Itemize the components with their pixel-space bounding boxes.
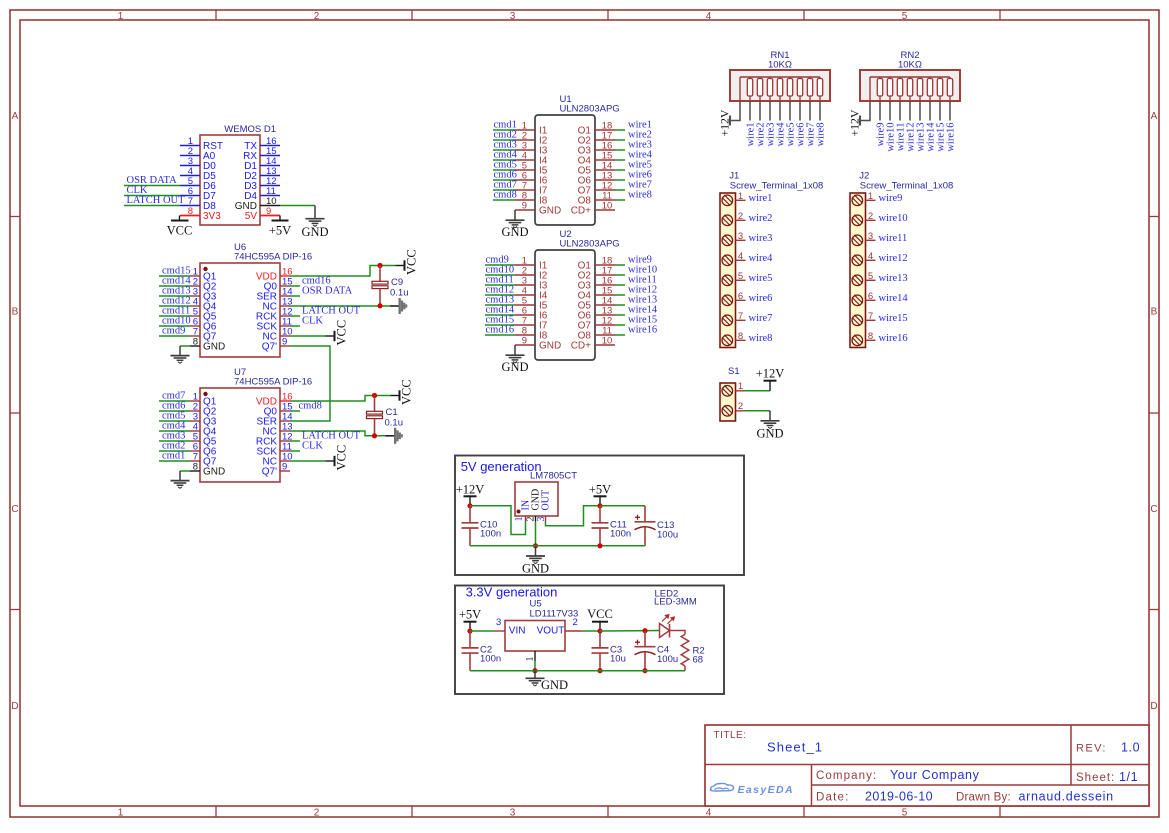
wire U7 GND pin8 to ground [180,470,190,472]
U1 pin 16 O3 [595,149,615,151]
wire U5 GND to rail [534,661,536,671]
module U WEMOS D1 body [200,135,260,225]
svg-text:5: 5 [902,11,908,22]
svg-text:GND: GND [501,225,528,239]
svg-text:VCC: VCC [335,320,349,346]
wire net wire7 stub at U1 pin 12 [615,189,625,191]
power flag VCC right of C9 [396,265,405,267]
svg-text:6: 6 [738,291,743,302]
svg-text:VIN: VIN [509,626,526,637]
svg-text:2: 2 [314,808,320,819]
wire net cmd14 to U2 pin 6 [485,314,515,316]
pin 8 3V3 [180,215,200,217]
RN1 resistor element 8 [819,77,821,79]
J2 screw 4 [852,255,863,266]
svg-text:74HC595A DIP-16: 74HC595A DIP-16 [234,252,312,263]
J1 pin 2 [736,219,746,221]
U2 pin 17 O2 [595,274,615,276]
svg-text:10: 10 [602,201,613,212]
svg-text:GND: GND [522,562,549,576]
J1 pin 5 [736,279,746,281]
RN1 pin 6 leg [789,101,791,121]
U7 pin 2 Q2 [190,410,200,412]
IC U6 74HC595A DIP-16 body [200,263,280,357]
svg-text:B: B [1151,307,1158,318]
RN2 common bus [870,76,950,78]
J1 screw 5 [722,275,733,286]
title block dividers [705,764,1149,766]
junction C4 bottom [642,668,647,673]
U7 pin 6 Q6 [190,450,200,452]
wire U6 GND pin8 to ground [180,345,190,347]
svg-text:wire8: wire8 [816,123,827,147]
J2 pin 3 [866,239,876,241]
wire net cmd11 to U2 pin 3 [485,284,515,286]
U1 pin 17 O2 [595,139,615,141]
J1 pin 3 [736,239,746,241]
J1 pin 1 [736,199,746,201]
svg-text:wire8: wire8 [749,333,773,344]
capacitor C1 0.1u [374,396,376,412]
U6 pin 6 Q6 [190,325,200,327]
wire net cmd3 to U7 pin 5 [159,440,190,442]
svg-text:9: 9 [522,336,527,347]
power flag +5V under WEMOS [272,220,289,222]
svg-text:VCC: VCC [405,249,419,275]
svg-text:Company:: Company: [816,770,877,782]
svg-text:1.0: 1.0 [1121,741,1140,755]
wire net cmd1 to U7 pin 7 [159,460,190,462]
ground symbol under WEMOS [314,206,316,219]
ground symbol under U2 [514,345,516,355]
U5 pin 3 [494,630,506,632]
resistor R2 68 zigzag [681,634,689,666]
wire net cmd1 to U1 pin 1 [493,129,515,131]
RN2 pin 2 leg [879,101,881,121]
svg-text:0.1u: 0.1u [390,288,409,299]
annotation box 5V generation [455,456,744,576]
wire net wire16 stub at U2 pin 11 [615,334,625,336]
RN1 resistor element 1 [749,77,751,79]
RN1 pin 8 leg [809,101,811,121]
S1 pin 1 [736,390,745,392]
svg-text:10u: 10u [610,653,626,664]
pin 2 A0 [180,155,200,157]
svg-text:wire16: wire16 [946,123,957,152]
svg-text:2: 2 [525,517,536,522]
svg-text:WEMOS D1: WEMOS D1 [224,124,276,135]
svg-text:4: 4 [868,251,873,262]
RN2 pin 9 leg [949,101,951,121]
U2 pin 13 O6 [595,314,615,316]
ground symbol in 3.3V box [534,671,536,679]
svg-text:wire16: wire16 [628,325,657,336]
wire U7 pin15 Q0 stub [290,410,300,412]
junction +5V / C2 [467,628,472,633]
svg-text:+5V: +5V [589,482,611,496]
U1 pin 13 O6 [595,179,615,181]
J2 screw 5 [852,275,863,286]
RN2 resistor element 3 [899,77,901,79]
pin 12 D3 [260,185,280,187]
RN1 common bus [740,76,820,78]
svg-text:8: 8 [193,462,198,473]
wire U6 pin11 SCK stub [290,325,300,327]
svg-text:10KΩ: 10KΩ [898,60,922,71]
RN1 resistor element 5 [789,77,791,79]
RN2 resistor element 1 [879,77,881,79]
svg-text:CD+: CD+ [571,341,591,352]
svg-text:VCC: VCC [335,445,349,471]
RN1 pin 1 common leg [730,101,740,121]
U6 pin 15 Q0 [280,285,290,287]
U7 pin 3 Q3 [190,420,200,422]
svg-text:C1: C1 [386,407,398,418]
wire net cmd2 to U1 pin 2 [493,139,515,141]
wire net cmd5 to U7 pin 3 [159,420,190,422]
power flag VCC at U7 pin10 [326,460,335,462]
capacitor C13 100u polarized [644,506,646,522]
svg-text:9: 9 [282,337,287,348]
regulator U LM7805CT body [515,482,558,516]
svg-text:TITLE:: TITLE: [714,730,747,741]
frame row letters [11,111,1157,712]
wire net wire5 stub at U1 pin 14 [615,169,625,171]
screw terminal J2 body [850,193,866,348]
RN2 resistor element 6 [929,77,931,79]
J1 screw 6 [722,295,733,306]
J1 screw 7 [722,315,733,326]
pin 5 D6 [180,185,200,187]
svg-text:3: 3 [496,617,501,628]
junction U5 GND rail [532,668,537,673]
U7 pin 14 SER [280,420,290,422]
svg-text:cmd16: cmd16 [486,325,515,336]
svg-text:C: C [1150,504,1157,515]
svg-text:1: 1 [738,191,743,202]
wire net cmd15 to U6 pin 1 [159,275,190,277]
svg-text:LM7805CT: LM7805CT [530,471,577,482]
svg-text:Your Company: Your Company [890,768,980,782]
U7 pin 7 Q7 [190,460,200,462]
S1 screw 2 [722,406,733,417]
svg-text:+12V: +12V [456,482,485,496]
U6 pin 12 RCK [280,315,290,317]
capacitor C4 100u polarized [644,631,646,647]
J2 pin 1 [866,199,876,201]
junction VCC / C3 [597,628,602,633]
svg-text:VCC: VCC [587,607,613,621]
LM7805 pin 3 OUT stub [545,516,547,522]
RN1 resistor element 2 [759,77,761,79]
wire net cmd2 to U7 pin 6 [159,450,190,452]
U2 pin 8 I8 [515,334,535,336]
LM7805 pin 1 stub [525,516,527,522]
svg-text:2019-06-10: 2019-06-10 [865,790,933,804]
svg-text:2: 2 [738,401,743,412]
U1 pin 12 O7 [595,189,615,191]
svg-text:5: 5 [738,271,743,282]
svg-text:C9: C9 [391,277,403,288]
wire net wire6 stub at U1 pin 13 [615,179,625,181]
svg-text:wire15: wire15 [879,313,908,324]
svg-text:wire7: wire7 [749,313,773,324]
U6 pin 2 Q2 [190,285,200,287]
svg-text:GND: GND [541,678,568,692]
svg-text:A: A [1151,111,1158,122]
svg-text:wire9: wire9 [879,193,903,204]
S1 screw 1 [722,386,733,397]
RN1 pin 2 leg [749,101,751,121]
U7 pin1 marker dot [203,392,207,396]
power flag +12V at RN2 [859,116,861,126]
LED2 light arrows [662,615,674,624]
ground symbol at U6 pin8 [179,346,181,356]
svg-text:wire5: wire5 [749,273,773,284]
svg-text:+12V: +12V [756,367,785,381]
pin 7 D8 [180,205,200,207]
wire net cmd5 to U1 pin 5 [493,169,515,171]
svg-text:GND: GND [501,360,528,374]
svg-text:Screw_Terminal_1x08: Screw_Terminal_1x08 [730,181,823,192]
U1 pin 11 O8 [595,199,615,201]
svg-text:Drawn By:: Drawn By: [956,792,1011,804]
U6 pin 10 NC [280,335,290,337]
RN2 resistor element 7 [939,77,941,79]
svg-text:3: 3 [868,231,873,242]
svg-text:wire10: wire10 [879,213,908,224]
svg-text:4: 4 [738,251,743,262]
U6 pin 11 SCK [280,325,290,327]
RN1 pin 5 leg [779,101,781,121]
svg-text:3V3: 3V3 [203,211,221,222]
pin 3 D0 [180,165,200,167]
J2 screw 8 [852,335,863,346]
svg-text:1: 1 [514,517,525,522]
wire LED2 cathode to R2 [670,631,686,635]
svg-text:CD+: CD+ [571,206,591,217]
svg-text:wire8: wire8 [628,190,652,201]
svg-text:GND: GND [756,426,783,440]
capacitor C10 100n [469,506,471,523]
capacitor C11 100n [599,506,601,523]
svg-text:wire4: wire4 [749,253,774,264]
J2 screw 6 [852,295,863,306]
RN1 pin 9 leg [819,101,821,121]
wire net wire15 stub at U2 pin 12 [615,324,625,326]
U2 pin 7 I7 [515,324,535,326]
RN1 resistor element 4 [779,77,781,79]
svg-text:100u: 100u [657,654,678,665]
junction C11 bottom [597,543,602,548]
U7 pin 15 Q0 [280,410,290,412]
junction U7 VDD / C1 [372,393,377,398]
svg-text:VCC: VCC [167,224,193,238]
power flag +12V at S1 [769,381,771,391]
svg-text:4: 4 [706,11,712,22]
wire net wire4 stub at U1 pin 15 [615,159,625,161]
svg-text:8: 8 [868,331,873,342]
ground symbol under U1 [514,210,516,220]
svg-text:1: 1 [118,11,124,22]
U1 pin 5 I5 [515,169,535,171]
ground symbol at U7 pin8 [179,471,181,481]
J2 screw 2 [852,215,863,226]
svg-text:8: 8 [193,337,198,348]
RN2 pin 3 leg [889,101,891,121]
wire net cmd14 to U6 pin 2 [159,285,190,287]
wire U6 Q7 pin9 to U7 SER pin14 [290,346,330,421]
RN2 pin 6 leg [919,101,921,121]
screw terminal J1 body [720,193,736,348]
EasyEDA logo [711,783,734,791]
wire U6 pin13 to ground rail [290,305,390,307]
U6 pin 16 VDD [280,275,290,277]
wire U5 VOUT to VCC [582,630,601,632]
J1 pin 4 [736,259,746,261]
RN2 resistor element 4 [909,77,911,79]
svg-text:wire3: wire3 [749,233,773,244]
U1 pin 10 CD+ [595,209,615,211]
svg-text:B: B [12,307,19,318]
J2 screw 3 [852,235,863,246]
J2 pin 7 [866,319,876,321]
wire net cmd6 to U7 pin 2 [159,410,190,412]
pin 6 D7 [180,195,200,197]
U6 pin 5 Q5 [190,315,200,317]
wire U7 pin12 RCK stub [290,440,300,442]
U7 pin 8 GND [190,470,200,472]
U2 pin 9 GND [515,344,535,346]
U2 pin 12 O7 [595,324,615,326]
wire LM7805 GND to rail [535,522,537,546]
wire net wire11 stub at U2 pin 16 [615,284,625,286]
wire net cmd10 to U2 pin 2 [485,274,515,276]
svg-text:1: 1 [868,191,873,202]
U2 pin 16 O3 [595,284,615,286]
svg-text:C: C [11,504,18,515]
svg-text:wire12: wire12 [879,253,908,264]
J2 pin 2 [866,219,876,221]
diode LED2 symbol [660,624,670,638]
svg-text:wire16: wire16 [879,333,908,344]
resistor network RN1 body [730,70,830,101]
svg-text:+12V: +12V [848,109,862,136]
junction C3 bottom [597,668,602,673]
wire U2 GND to ground [514,344,516,346]
J1 screw 1 [722,195,733,206]
svg-text:+12V: +12V [718,109,732,136]
svg-text:cmd8: cmd8 [299,401,322,412]
svg-text:100u: 100u [657,529,678,540]
power flag VCC in 3.3V box [599,622,601,631]
svg-text:GND: GND [301,225,328,239]
J1 screw 4 [722,255,733,266]
svg-text:1/1: 1/1 [1119,770,1138,784]
RN1 pin 3 leg [759,101,761,121]
svg-text:74HC595A DIP-16: 74HC595A DIP-16 [234,377,312,388]
svg-text:LD1117V33: LD1117V33 [530,609,579,620]
wire net cmd9 to U6 pin 7 [159,335,190,337]
svg-text:2: 2 [314,11,320,22]
RN1 resistor element 6 [799,77,801,79]
svg-text:wire2: wire2 [749,213,773,224]
U1 pin 2 I2 [515,139,535,141]
J1 pin 6 [736,299,746,301]
U1 pin 1 I1 [515,129,535,131]
wire net cmd13 to U2 pin 5 [485,304,515,306]
ground symbol rotated right of C9 [390,305,399,307]
power flag +5V in 5V box [599,496,601,506]
wire U7 VDD pin16 to VCC rail [290,396,391,402]
wire net OSR DATA to WEMOS D6 [124,185,180,187]
ground symbol rotated right of C1 [386,435,395,437]
frame column numbers [118,11,908,818]
svg-text:arnaud.dessein: arnaud.dessein [1019,790,1114,804]
U2 pin 1 I1 [515,264,535,266]
ground symbol in 5V box [535,546,537,556]
U2 pin 6 I6 [515,314,535,316]
svg-text:A: A [12,111,19,122]
wire net LATCH OUT to WEMOS D8 [124,205,180,207]
svg-text:VOUT: VOUT [537,626,565,637]
svg-text:GND: GND [539,206,561,217]
wire U7 pin11 SCK stub [290,450,300,452]
U6 pin 8 GND [190,345,200,347]
U2 pin 14 O5 [595,304,615,306]
wire R2 bottom to ground rail [684,666,686,671]
wire U6 pin15 Q0 stub [290,285,300,287]
svg-text:4: 4 [706,808,712,819]
U5 pin 1 GND stub [534,651,536,661]
svg-text:GND: GND [203,467,225,478]
U7 pin 13 NC [280,430,290,432]
RN1 pin 7 leg [799,101,801,121]
junction +12V / C10 [467,503,472,508]
U1 pin 18 O1 [595,129,615,131]
pin 16 TX [260,145,280,147]
J2 pin 4 [866,259,876,261]
wire U6 pin12 RCK stub [290,315,300,317]
svg-text:ULN2803APG: ULN2803APG [560,104,620,115]
wire net wire2 stub at U1 pin 17 [615,139,625,141]
svg-text:S1: S1 [728,366,740,377]
J2 screw 7 [852,315,863,326]
svg-text:100n: 100n [480,653,501,664]
J2 pin 8 [866,339,876,341]
svg-text:5: 5 [868,271,873,282]
svg-text:+5V: +5V [459,608,481,622]
junction GND rail 5V box [533,543,538,548]
svg-text:LATCH OUT: LATCH OUT [127,195,186,206]
wire VCC rail to LED [600,630,660,633]
U2 pin 3 I3 [515,284,535,286]
wire net wire1 stub at U1 pin 18 [615,129,625,131]
U5 pin 2 [565,630,582,632]
pin 14 D1 [260,165,280,167]
svg-text:VCC: VCC [400,379,414,405]
svg-text:cmd8: cmd8 [494,190,517,201]
svg-text:EasyEDA: EasyEDA [738,784,795,796]
wire net wire3 stub at U1 pin 16 [615,149,625,151]
U2 pin 15 O4 [595,294,615,296]
svg-text:0.1u: 0.1u [385,418,404,429]
power flag VCC under WEMOS [171,220,189,222]
capacitor C2 100n [469,631,471,648]
svg-text:GND: GND [539,341,561,352]
IC U7 74HC595A DIP-16 body [200,388,280,482]
svg-text:5V: 5V [245,211,258,222]
